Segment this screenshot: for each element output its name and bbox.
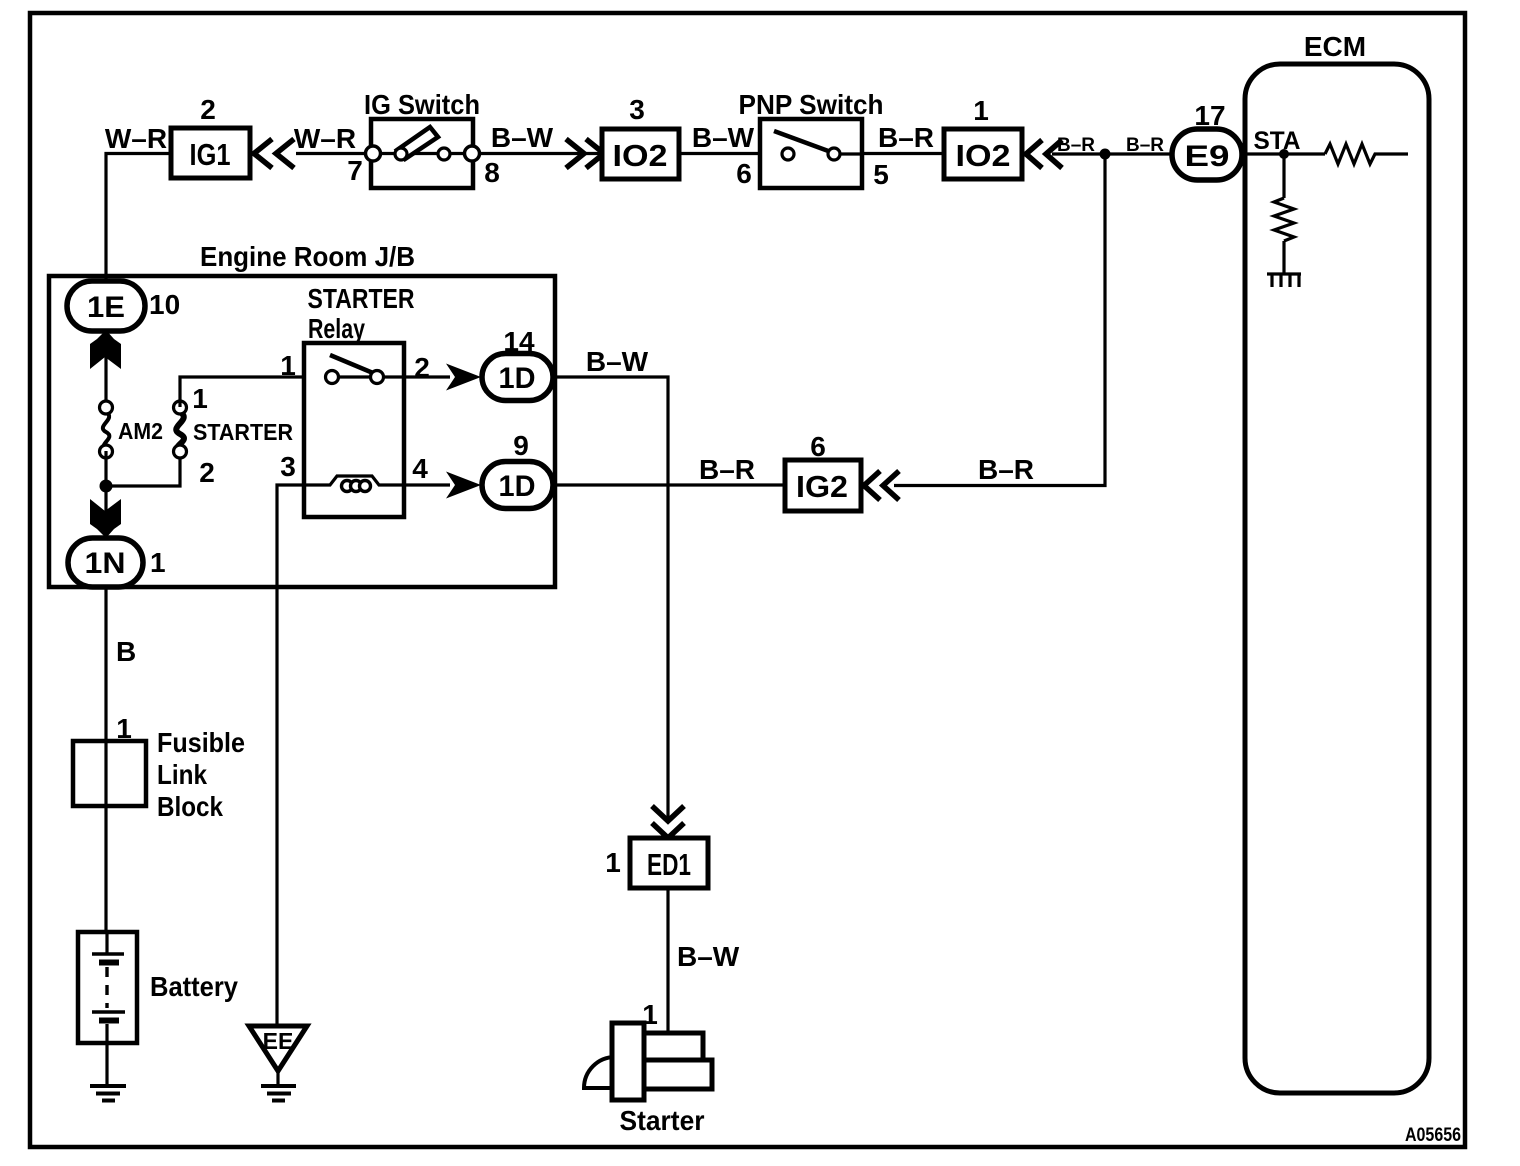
svg-text:5: 5 bbox=[873, 159, 889, 190]
svg-text:Relay: Relay bbox=[308, 313, 365, 344]
svg-text:1: 1 bbox=[973, 95, 989, 126]
node STA junction bbox=[1279, 149, 1289, 159]
svg-text:Link: Link bbox=[157, 759, 207, 790]
wire relay pin3 to EE column bbox=[277, 485, 304, 1025]
battery internal top lead bbox=[105, 932, 108, 953]
svg-text:B–R: B–R bbox=[978, 454, 1034, 485]
battery internal bottom lead bbox=[105, 1024, 108, 1043]
svg-text:Engine Room J/B: Engine Room J/B bbox=[200, 241, 415, 272]
PNP blade bbox=[774, 131, 831, 152]
connector IG2 bbox=[785, 460, 861, 511]
fuse AM2 terminal top bbox=[100, 401, 113, 414]
wire EE to ground bbox=[276, 1071, 279, 1086]
svg-text:Block: Block bbox=[157, 791, 223, 822]
PNP circle left bbox=[782, 148, 794, 160]
starter M1 body lower bbox=[644, 1060, 712, 1089]
fuse STARTER squiggle bbox=[176, 412, 184, 452]
arrow into 1D top bbox=[446, 364, 481, 391]
resistor R2 vertical bbox=[1274, 198, 1294, 241]
wire battery to ground bbox=[105, 1043, 108, 1086]
connector 1E oval bbox=[67, 281, 145, 331]
chevron arrows into ED1 bbox=[652, 806, 684, 838]
svg-text:9: 9 bbox=[513, 430, 529, 461]
chevron arrows into IO2 bbox=[566, 139, 604, 168]
fuse AM2 squiggle bbox=[103, 412, 110, 450]
Engine Room J/B box bbox=[49, 276, 555, 587]
connector IG1 bbox=[171, 128, 250, 178]
connector IO2 bbox=[602, 129, 679, 179]
svg-text:3: 3 bbox=[280, 451, 296, 482]
svg-text:B–R: B–R bbox=[699, 454, 755, 485]
battery plate long bottom bbox=[92, 1010, 125, 1013]
relay K1 box bbox=[304, 343, 404, 517]
relay coil wire with bump bbox=[304, 476, 404, 485]
starter M1 body upper bbox=[644, 1033, 703, 1060]
IG switch pole wire bbox=[380, 152, 466, 155]
battery plate short bottom bbox=[99, 1018, 119, 1024]
relay coil turn 2 bbox=[351, 481, 362, 492]
svg-text:1: 1 bbox=[192, 383, 208, 414]
battery plate short top bbox=[99, 960, 119, 966]
svg-text:Battery: Battery bbox=[150, 971, 238, 1002]
connector ED1 bbox=[630, 838, 708, 888]
PNP pole wire bbox=[840, 152, 862, 155]
wire relay pin4 to 1D bbox=[404, 483, 450, 486]
wire fusible link to battery bbox=[104, 741, 107, 932]
starter M1 nose cone bbox=[584, 1057, 615, 1088]
PNP circle right bbox=[828, 148, 840, 160]
junction node AM2/STARTER bbox=[100, 480, 113, 493]
IG switch terminal 8 circle bbox=[465, 146, 480, 161]
svg-text:B–W: B–W bbox=[586, 346, 649, 377]
svg-text:IO2: IO2 bbox=[613, 138, 668, 173]
wire B-R from junction to IG2 bbox=[894, 154, 1105, 486]
wire B-W IO2 to PNP switch bbox=[679, 152, 788, 155]
arrow into 1D bottom bbox=[446, 472, 481, 499]
ECM box U1 bbox=[1245, 64, 1429, 1093]
ground ECM internal bbox=[1267, 274, 1301, 287]
svg-text:8: 8 bbox=[484, 157, 500, 188]
svg-text:4: 4 bbox=[412, 453, 428, 484]
svg-text:7: 7 bbox=[347, 155, 363, 186]
svg-text:AM2: AM2 bbox=[118, 418, 163, 444]
wire 1E to AM2 fuse bbox=[104, 331, 107, 402]
svg-text:1D: 1D bbox=[499, 362, 536, 395]
IG Switch box S1 bbox=[371, 119, 473, 188]
wire AM2 to junction bbox=[104, 451, 107, 486]
wire B-W ED1 to starter bbox=[666, 888, 669, 1034]
ground EE triangle bbox=[249, 1026, 307, 1071]
arrow down into 1N bbox=[90, 499, 121, 538]
fusible link block F1 bbox=[73, 741, 146, 806]
svg-text:ED1: ED1 bbox=[647, 847, 691, 882]
svg-text:10: 10 bbox=[149, 289, 180, 320]
fuse STARTER terminal top bbox=[174, 401, 187, 414]
battery plate long top bbox=[92, 952, 124, 955]
svg-text:1D: 1D bbox=[499, 470, 536, 503]
svg-text:IO2: IO2 bbox=[956, 138, 1011, 173]
svg-text:IG2: IG2 bbox=[796, 469, 848, 504]
svg-text:6: 6 bbox=[736, 158, 752, 189]
svg-text:B–W: B–W bbox=[692, 122, 755, 153]
relay contact circle left bbox=[326, 371, 339, 384]
svg-text:1E: 1E bbox=[87, 291, 125, 324]
svg-text:1N: 1N bbox=[85, 547, 126, 580]
svg-text:B–R: B–R bbox=[1057, 135, 1095, 156]
wire W-R horizontal to IG1 bbox=[106, 154, 171, 283]
relay contact circle right bbox=[371, 371, 384, 384]
svg-text:E9: E9 bbox=[1185, 140, 1230, 173]
svg-text:6: 6 bbox=[810, 431, 826, 462]
wire 1N to fusible link bbox=[104, 587, 107, 741]
svg-text:STARTER: STARTER bbox=[308, 283, 415, 314]
svg-text:EE: EE bbox=[263, 1028, 294, 1054]
connector 1D oval bottom bbox=[482, 462, 553, 509]
svg-text:STARTER: STARTER bbox=[193, 419, 293, 445]
wire R2 to ground bbox=[1282, 241, 1285, 273]
svg-text:1: 1 bbox=[605, 847, 621, 878]
svg-text:B: B bbox=[116, 636, 136, 667]
IG switch inner circle left bbox=[395, 148, 407, 160]
IG switch terminal 7 circle bbox=[366, 146, 381, 161]
IG switch inner circle right bbox=[438, 148, 450, 160]
wire to resistor R2 bbox=[1282, 154, 1285, 198]
fuse AM2 terminal bottom bbox=[100, 445, 113, 458]
wire B-R to E9 bbox=[1052, 152, 1172, 155]
relay contact blade bbox=[330, 355, 373, 373]
connector IO2 second bbox=[944, 129, 1022, 179]
fuse STARTER terminal bottom bbox=[174, 445, 187, 458]
svg-text:W–R: W–R bbox=[105, 123, 167, 154]
svg-text:2: 2 bbox=[200, 94, 216, 125]
chevron arrows into IG2 bbox=[864, 471, 899, 500]
wire W-R to IG switch bbox=[296, 152, 371, 155]
relay coil turn 1 bbox=[342, 481, 353, 492]
wire junction to STARTER fuse bbox=[106, 452, 180, 486]
starter M1 drive housing bbox=[612, 1023, 644, 1100]
connector 1D oval top bbox=[482, 354, 553, 401]
wire B-W from IG switch to IO2 bbox=[479, 152, 602, 155]
resistor R1 horizontal bbox=[1325, 144, 1408, 164]
svg-text:ECM: ECM bbox=[1304, 31, 1366, 62]
svg-text:1: 1 bbox=[150, 547, 166, 578]
wire junction to down arrow bbox=[104, 486, 107, 538]
wire B-R from 1D to IG2 bbox=[553, 483, 785, 486]
junction node B-R bbox=[1100, 149, 1111, 160]
svg-text:IG Switch: IG Switch bbox=[364, 89, 480, 120]
svg-text:Fusible: Fusible bbox=[157, 727, 245, 758]
svg-text:B–W: B–W bbox=[677, 941, 740, 972]
connector E9 oval bbox=[1172, 129, 1242, 180]
arrow up into 1E bbox=[90, 330, 121, 369]
connector 1N oval bbox=[68, 538, 143, 587]
relay contact wire bbox=[338, 375, 404, 378]
svg-text:1: 1 bbox=[280, 350, 296, 381]
svg-text:B–W: B–W bbox=[491, 122, 554, 153]
wire B-W from 1D to ED1 column bbox=[553, 377, 668, 804]
svg-text:STA: STA bbox=[1254, 127, 1301, 155]
svg-text:Starter: Starter bbox=[620, 1105, 705, 1136]
svg-text:PNP Switch: PNP Switch bbox=[739, 89, 884, 120]
ground EE bbox=[261, 1086, 296, 1101]
PNP Switch box S2 bbox=[760, 119, 862, 188]
svg-text:2: 2 bbox=[199, 457, 215, 488]
svg-text:W–R: W–R bbox=[294, 123, 356, 154]
wire into ED1 chevrons bbox=[666, 804, 669, 818]
svg-text:A05656: A05656 bbox=[1405, 1125, 1461, 1146]
wire STA inside ECM bbox=[1245, 152, 1325, 155]
relay coil turn 3 bbox=[360, 481, 371, 492]
battery dashed middle bbox=[105, 967, 108, 1008]
ground battery bbox=[90, 1086, 126, 1101]
wire B-R PNP to IO2 bbox=[862, 152, 944, 155]
wire relay pin2 to 1D bbox=[404, 375, 450, 378]
wire STARTER fuse to relay bbox=[180, 377, 304, 407]
svg-text:B–R: B–R bbox=[1126, 135, 1164, 156]
svg-text:3: 3 bbox=[629, 94, 645, 125]
chevron arrows into IO2 second bbox=[1026, 140, 1062, 168]
IG switch blade bbox=[397, 127, 438, 159]
svg-text:B–R: B–R bbox=[878, 122, 934, 153]
chevron arrows into IG1 bbox=[254, 139, 294, 168]
svg-text:IG1: IG1 bbox=[190, 137, 231, 172]
battery BT1 box bbox=[78, 932, 137, 1043]
